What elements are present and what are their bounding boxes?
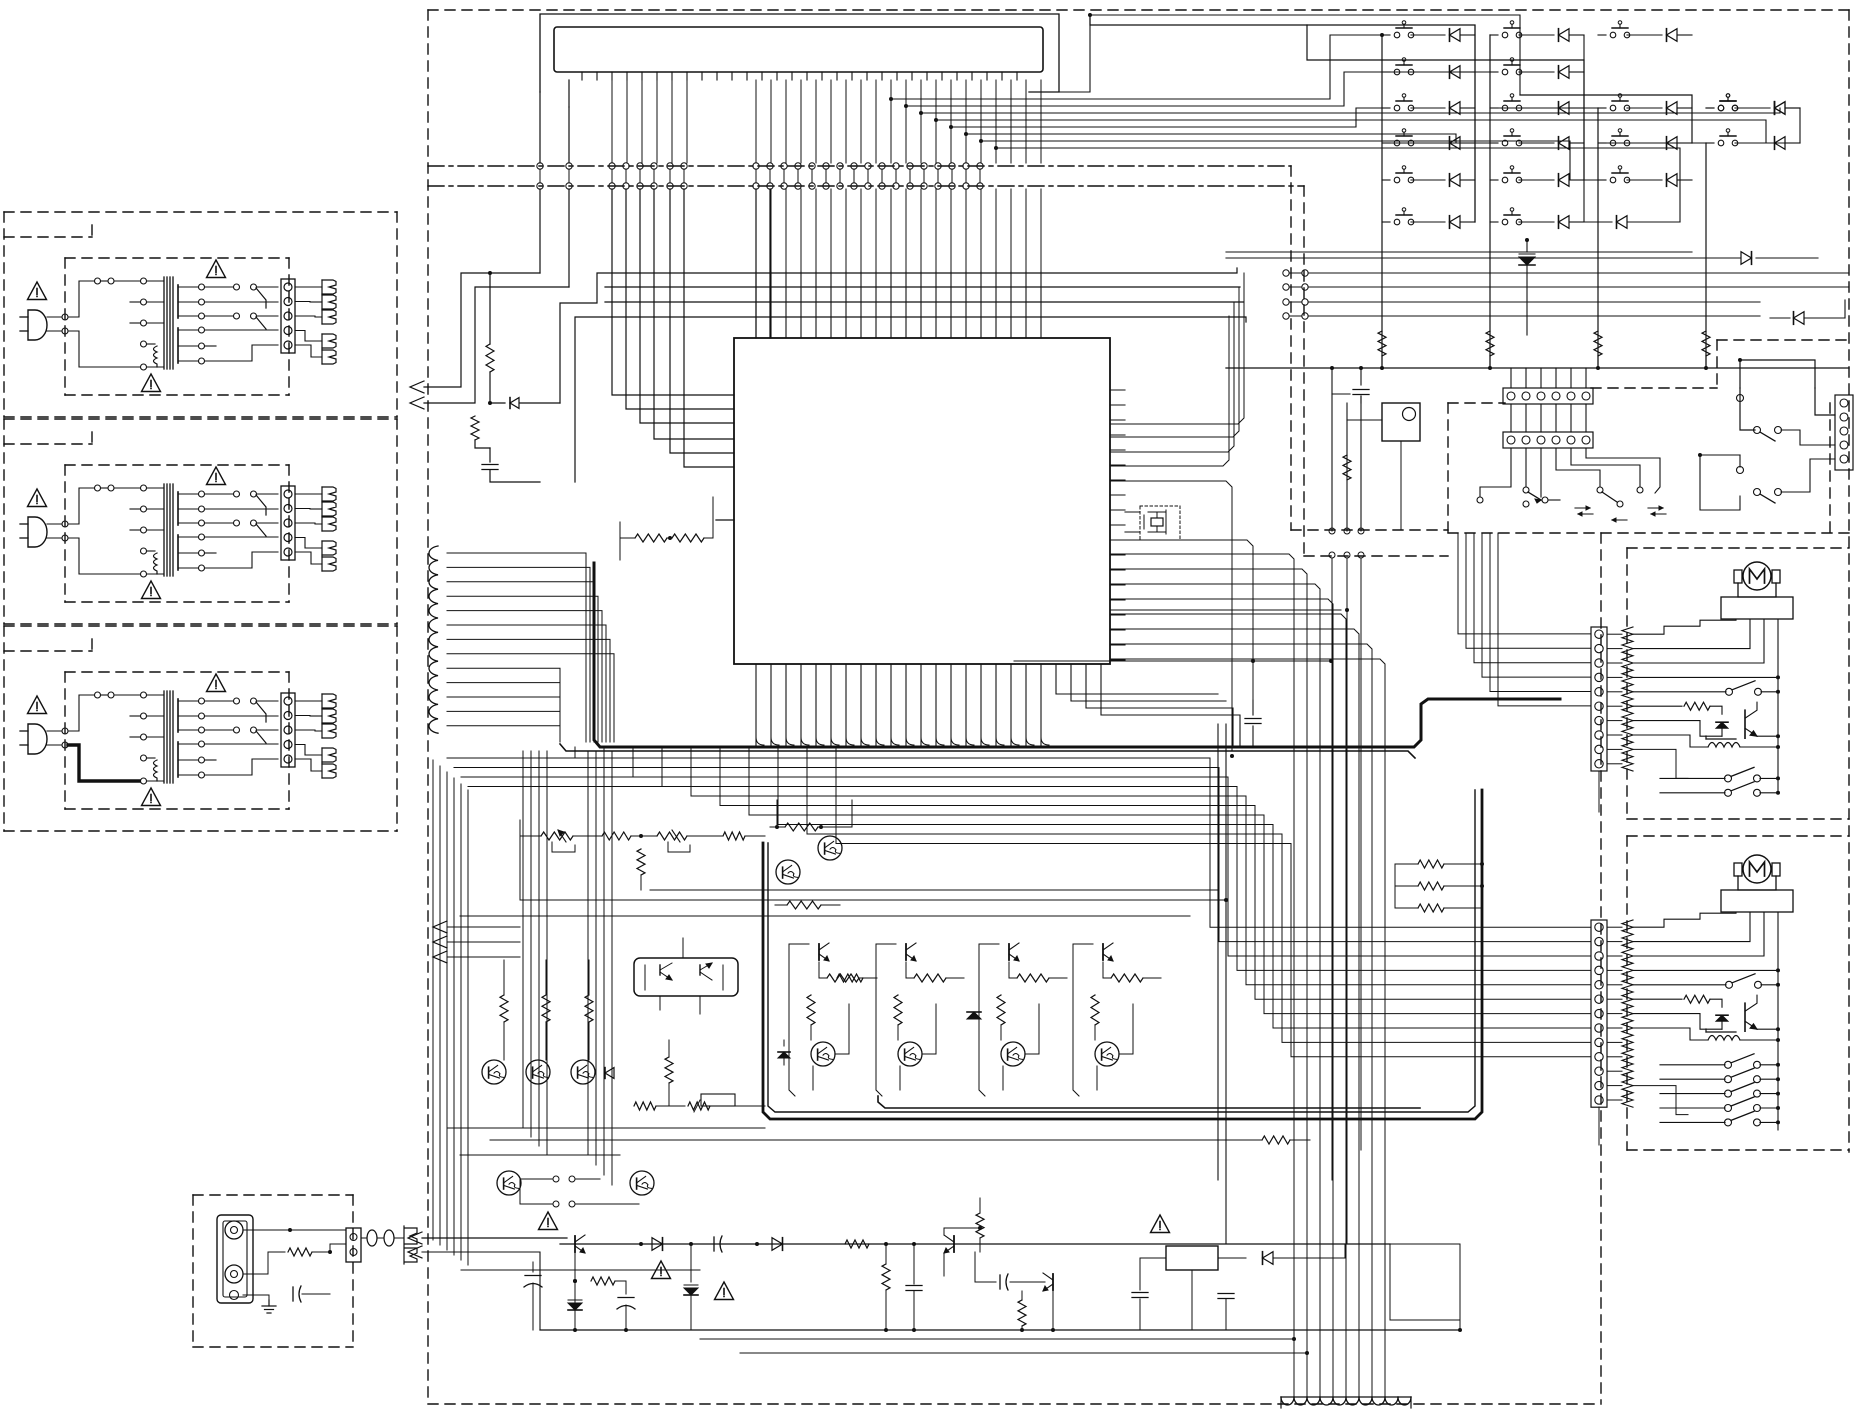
resistor R44 (1018, 1300, 1026, 1326)
wire (1525, 448, 1527, 487)
capacitor C13 (238, 1294, 296, 1296)
matrix common bus (1226, 367, 1849, 369)
cpu bus wires (612, 189, 734, 467)
line filter coil (1281, 1397, 1411, 1408)
resistor pullup (1597, 300, 1599, 331)
wire (1125, 511, 1140, 513)
wire (944, 1228, 980, 1235)
capacitor C5 (625, 1281, 627, 1294)
wire (835, 1004, 849, 1054)
connector CN4 (1835, 395, 1853, 470)
resistor R43 (882, 1264, 890, 1290)
resistor pullup (1705, 300, 1707, 331)
resistor R21 (770, 826, 785, 828)
mode switch S3 (1597, 487, 1603, 493)
resistor R42 (979, 1198, 981, 1212)
signal staircase wires (447, 747, 1591, 1057)
diode D6 (783, 1040, 785, 1046)
wire (1014, 660, 1331, 662)
wire (1110, 273, 1244, 466)
regulator Q20 (574, 1236, 576, 1252)
matrix feed junctions (889, 97, 998, 150)
wire (531, 1136, 650, 1138)
wire (1052, 1290, 1054, 1330)
arrow glyph (1648, 507, 1663, 509)
wire (447, 668, 560, 742)
pot R20 (688, 1102, 710, 1110)
connector pins (582, 72, 1017, 80)
wire (876, 944, 882, 1096)
driver transistor Q12 (1008, 944, 1010, 960)
wire (290, 1229, 346, 1231)
resistor R34 (1395, 863, 1418, 865)
wire (1029, 15, 1090, 92)
cpu bottom pins (756, 664, 1041, 745)
wire (891, 35, 1382, 99)
wire (523, 1127, 620, 1129)
main board dashed boundary (428, 10, 1849, 1404)
transistor Q7 (818, 836, 842, 860)
pot tap (552, 842, 575, 852)
cpu left pin stub (716, 519, 734, 521)
switch S4 (1737, 395, 1744, 402)
transistor Q5 (630, 1171, 654, 1195)
cassette motor M1 block (1591, 562, 1793, 796)
resistor R14 (640, 836, 642, 845)
wire (243, 1229, 290, 1231)
wire (1332, 368, 1350, 394)
resistor R2 (474, 398, 476, 414)
wire (1073, 944, 1079, 1096)
wire (1191, 1270, 1193, 1330)
wire (1474, 25, 1476, 222)
connector CN2 (1503, 388, 1593, 404)
driver transistor Q13 (1102, 944, 1104, 960)
wire (1458, 533, 1591, 706)
wire (361, 1237, 367, 1239)
capacitor C7 (713, 1237, 715, 1251)
wire (1347, 403, 1382, 420)
line-out jack box boundary (193, 1195, 353, 1347)
resistor R31 (997, 995, 1005, 1025)
resistor R15 (503, 960, 505, 994)
wire (710, 1105, 765, 1107)
wire (519, 1179, 521, 1204)
wire (1520, 95, 1692, 143)
wire (575, 317, 1246, 482)
wire (1597, 108, 1599, 368)
wire (540, 14, 1059, 92)
capacitor C9 (913, 1244, 915, 1284)
transistor Q6 (776, 860, 800, 884)
resistor R18 (668, 1040, 670, 1056)
pot tap (668, 842, 690, 852)
power transformer T2 (20, 467, 336, 599)
wire (740, 1352, 1307, 1354)
wire (447, 697, 560, 742)
wire (461, 1269, 700, 1271)
wire (1700, 455, 1740, 510)
connector comb CN5 (429, 546, 438, 733)
power switch S1 (1382, 403, 1420, 441)
main CPU IC U1 (734, 338, 1110, 664)
diode D7 (967, 1012, 981, 1019)
transistor Q21 (953, 1236, 955, 1252)
wire (1346, 503, 1348, 555)
wire (1815, 388, 1835, 415)
wire (1110, 609, 1341, 611)
wire (682, 938, 684, 958)
connector CN7 (405, 1228, 417, 1244)
power bus thick (763, 790, 1482, 1119)
power transistor Q15 (898, 1042, 922, 1066)
wire (447, 1127, 520, 1129)
ribbon bus lower (560, 744, 1415, 758)
wire (1489, 35, 1491, 368)
wire (1110, 554, 1385, 1167)
resistor R9 (667, 537, 672, 539)
resistor R41 (845, 1240, 869, 1248)
wire (1293, 1155, 1295, 1180)
wire (330, 1244, 346, 1252)
wire (1583, 35, 1585, 222)
jumper links (553, 1176, 559, 1182)
wire (897, 1040, 899, 1046)
wire (1226, 251, 1692, 253)
diode D13 (772, 1238, 783, 1251)
key switch matrix (1382, 21, 1800, 229)
resistor R33 (1262, 1136, 1290, 1144)
wire (981, 141, 1598, 180)
cpu data bus verticals (756, 80, 1041, 338)
connector CN6 (346, 1228, 361, 1262)
wire (1400, 441, 1402, 530)
wire (1331, 531, 1333, 555)
wire (1000, 1040, 1002, 1046)
wire (1090, 15, 1475, 222)
zener D12 (690, 1262, 692, 1282)
wire (810, 1040, 812, 1046)
resistor pullup (1381, 300, 1383, 331)
wire (789, 944, 795, 1096)
power rail bottom (540, 1329, 1460, 1331)
wire (1360, 396, 1362, 531)
resistor R32 (1091, 995, 1099, 1025)
capacitor C6 (532, 1262, 534, 1272)
capacitor C1 (489, 448, 491, 462)
wire (1740, 360, 1815, 388)
power transistor Q14 (811, 1042, 835, 1066)
wire (769, 189, 771, 338)
power transformer T3 (20, 674, 336, 806)
resistor R26 (905, 960, 907, 970)
resistor R19 (634, 1102, 656, 1110)
driver transistor Q10 (818, 944, 820, 960)
resistor R17 (588, 960, 590, 994)
driver transistor Q11 (905, 944, 907, 960)
pin circles (1329, 528, 1335, 534)
wire (951, 108, 1382, 127)
wire (422, 1252, 540, 1330)
diode D row (1226, 257, 1740, 259)
wire (1700, 454, 1740, 456)
cpu bottom pins right group (1056, 664, 1218, 694)
power rail top (422, 1237, 567, 1239)
resistor R45 (288, 1248, 312, 1256)
ferrite beads (367, 1230, 377, 1246)
resistor R30 (894, 995, 902, 1025)
AC inlet block 2 boundary (4, 419, 397, 624)
wire (612, 80, 687, 163)
wire (540, 80, 569, 287)
resistor R25 (818, 960, 820, 970)
resistor R28 (1102, 960, 1104, 970)
connector chevrons (410, 381, 424, 393)
transistor Q2 (526, 1060, 550, 1084)
wire (424, 273, 540, 387)
wire (1556, 448, 1600, 487)
wire (447, 683, 560, 742)
resistor R1 (489, 273, 491, 344)
resistor R29 (807, 995, 815, 1025)
wire (523, 751, 612, 1185)
wire (966, 134, 1490, 143)
diode D11 (640, 1243, 651, 1245)
diode D14 (1246, 1257, 1258, 1259)
diode D5 (607, 1060, 609, 1068)
wire (605, 301, 1243, 303)
wire (1360, 432, 1362, 555)
wire (1511, 368, 1586, 432)
wire (539, 92, 541, 163)
wire (460, 915, 1190, 917)
capacitor C11 (1139, 1258, 1141, 1290)
capacitor C2 (1360, 368, 1362, 385)
wire (447, 711, 560, 742)
record switch S2 (1477, 497, 1483, 503)
resistor R10 (541, 832, 573, 840)
wire (574, 1252, 576, 1330)
wire (1025, 1004, 1039, 1054)
power rail (422, 1243, 560, 1245)
wire (1740, 388, 1755, 430)
keyboard bus wires (447, 553, 614, 742)
wire (1110, 540, 1253, 700)
wire (605, 286, 1240, 288)
wire (520, 899, 1226, 901)
wire (1781, 430, 1835, 445)
wire (1705, 143, 1707, 368)
resistor R13 (687, 835, 723, 837)
wire (1394, 864, 1396, 908)
wire (922, 1004, 936, 1054)
resistor R8 (635, 534, 667, 542)
crystal X1 (1140, 506, 1180, 540)
board-to-board pin row (537, 163, 983, 189)
arrow glyph (1575, 507, 1590, 509)
resistor R12 (631, 835, 657, 837)
wire (996, 148, 1680, 222)
wire (1381, 35, 1383, 368)
power transformer T1 (20, 260, 336, 392)
AC connector chevrons (408, 1232, 422, 1244)
wire (1094, 1040, 1096, 1046)
wire (1090, 15, 1520, 95)
wire (1586, 448, 1660, 493)
zener D1 (490, 402, 505, 404)
wire (1571, 448, 1640, 487)
cpu right pins (1110, 390, 1125, 660)
line out jacks J1 (217, 1215, 253, 1303)
key switch matrix extra (1706, 107, 1714, 109)
wire (460, 1127, 765, 1129)
arrow glyph (1612, 519, 1627, 521)
diode D3 (1770, 317, 1790, 319)
transistor Q4 (497, 1171, 521, 1195)
AC inlet block 3 boundary (4, 626, 397, 831)
resistor R16 (545, 960, 547, 994)
zener D10 (568, 1303, 582, 1310)
wire (243, 1273, 268, 1275)
transistor Q3 (571, 1060, 595, 1084)
wire (650, 889, 1218, 891)
resistor R11 (573, 835, 602, 837)
transistor Q22 (1052, 1274, 1054, 1290)
resistor R27 (1008, 960, 1010, 970)
resistor R22 (837, 974, 863, 982)
power transistor Q16 (1001, 1042, 1025, 1066)
AC inlet block 1 boundary (4, 212, 397, 417)
capacitor C12 (1225, 1289, 1227, 1291)
wire (1110, 481, 1232, 750)
diode D4 (1584, 221, 1612, 223)
connector CN3 (1503, 432, 1593, 448)
wire (1225, 724, 1227, 1244)
wire (560, 268, 1237, 403)
cassette motor M2 block (1591, 855, 1793, 1130)
wire (755, 189, 757, 338)
wire (1294, 1125, 1385, 1397)
wire (877, 1090, 879, 1096)
warning (715, 1282, 734, 1300)
resistor R3 (1346, 420, 1348, 455)
connector chevrons (433, 921, 447, 933)
wire (700, 1338, 1294, 1340)
wire (433, 760, 468, 1265)
wire (1217, 724, 1219, 1180)
wire (1540, 448, 1542, 497)
wire (460, 1154, 620, 1156)
resistor R40 (585, 1280, 591, 1282)
wire (490, 1139, 1226, 1141)
wire (1110, 389, 1125, 391)
wire (1307, 25, 1584, 180)
wire (1382, 71, 1490, 73)
wire (906, 72, 1382, 106)
wire (1390, 1244, 1460, 1320)
main ribbon bus (594, 563, 1560, 747)
wire (1480, 448, 1511, 497)
power bus thick2 (768, 790, 1475, 1112)
wire (447, 726, 560, 742)
wire (1119, 1004, 1133, 1054)
ground (268, 1300, 270, 1306)
wire (620, 537, 635, 539)
cpu top pins (756, 272, 1041, 338)
opto-isolator U2 (634, 958, 738, 996)
keyboard connector CN1 (554, 27, 1043, 72)
wire (936, 120, 1800, 143)
resistor pullup (1489, 300, 1491, 331)
wire (1310, 1257, 1345, 1259)
capacitor C4 (1252, 700, 1254, 715)
wire (438, 553, 465, 726)
resistor R35 (1395, 885, 1418, 887)
regulator IC U3 (1166, 1246, 1218, 1270)
wire (424, 287, 569, 403)
wire (447, 927, 520, 957)
wire (921, 108, 1780, 113)
capacitor C10 (999, 1275, 1001, 1289)
power bus thick3 (878, 1096, 1420, 1108)
wire (979, 944, 985, 1096)
transistor Q1 (482, 1060, 506, 1084)
wire (520, 835, 541, 837)
wire (1781, 459, 1835, 492)
resistor R21b (787, 901, 821, 909)
wire (1459, 1244, 1461, 1330)
resistor R36 (1395, 907, 1418, 909)
connector row wires (1283, 270, 1849, 319)
power transistor Q17 (1095, 1042, 1119, 1066)
wire (756, 737, 1049, 745)
zener D2 (1526, 240, 1528, 252)
